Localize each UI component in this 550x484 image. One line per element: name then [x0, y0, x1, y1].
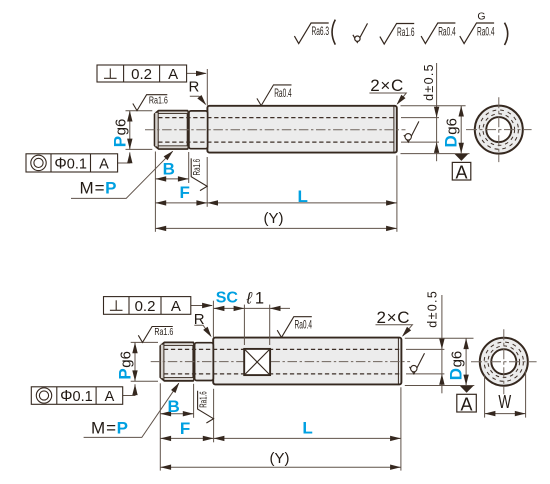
Pg6 dimension line (bottom)	[134, 342, 136, 381]
surface symbol Ra1.6 at thread (top)	[133, 95, 168, 111]
perpendicular symbol	[109, 69, 111, 79]
dimension line F and L (bottom)	[160, 437, 401, 439]
d dimension line (bottom)	[441, 295, 443, 393]
end view: crosshair center lines	[466, 129, 532, 131]
svg-text:(Y): (Y)	[264, 210, 284, 227]
ext line shoulder top	[206, 69, 208, 106]
svg-text:Ra0.4: Ra0.4	[295, 318, 313, 332]
surface symbol Ra1.6 at thread (bottom)	[138, 327, 173, 343]
svg-text:B: B	[163, 160, 175, 179]
shaft top/bottom ext lines	[401, 105, 466, 107]
dimension line B (bottom)	[160, 413, 193, 415]
dimension line F and L	[155, 202, 397, 204]
thread chamfer line (bottom)	[163, 343, 165, 381]
svg-text:F: F	[180, 419, 190, 438]
d ext lines (bottom)	[406, 348, 444, 350]
svg-text:Φ0.1: Φ0.1	[60, 388, 93, 405]
concentricity symbol (bottom)	[36, 388, 51, 403]
svg-text:Ra0.4: Ra0.4	[477, 25, 495, 39]
end view crosshair (bottom)	[471, 361, 537, 363]
leader M=P	[71, 151, 173, 198]
concentricity tolerance frame (bottom)	[31, 387, 122, 405]
legend symbol basic with circle	[353, 23, 368, 42]
end view hole circle (bottom)	[491, 349, 516, 374]
leader R (bottom)	[194, 325, 210, 336]
legend symbol Ra1.6	[380, 24, 414, 45]
datum A box (top)	[452, 162, 471, 180]
d dimension line	[436, 63, 438, 161]
perpendicular symbol (bottom)	[115, 300, 117, 310]
svg-text:Ra1.6: Ra1.6	[191, 159, 203, 176]
svg-text:A: A	[460, 394, 472, 414]
rotated surface symbol Ra1.6 at shoulder (bottom)	[197, 391, 213, 423]
datum A box (bottom)	[457, 394, 477, 412]
svg-text:Ra0.4: Ra0.4	[438, 25, 456, 39]
end view: hidden thread circles	[483, 114, 515, 146]
svg-text:L: L	[302, 419, 312, 438]
dimension line B	[155, 178, 188, 180]
svg-text:Ra1.6: Ra1.6	[149, 94, 168, 106]
svg-text:Φ0.1: Φ0.1	[54, 155, 87, 172]
svg-text:d±0.5: d±0.5	[426, 291, 440, 328]
svg-text:ℓ1: ℓ1	[246, 289, 265, 307]
thread minor diameter lines (bottom)	[164, 344, 193, 346]
svg-text:Dg6: Dg6	[442, 118, 461, 147]
legend symbol Ra6.3	[294, 23, 328, 44]
end view hidden circles (bottom)	[488, 346, 520, 378]
svg-text:(Y): (Y)	[270, 450, 290, 467]
svg-text:0.2: 0.2	[135, 298, 156, 315]
svg-text:A: A	[455, 162, 467, 182]
svg-text:A: A	[171, 298, 181, 315]
leader R	[190, 96, 206, 104]
center line (bottom)	[151, 361, 410, 363]
arrows (top drawing)	[127, 71, 464, 231]
Pg6 ext lines (bottom)	[131, 341, 158, 343]
d ext lines (hole)	[401, 117, 439, 119]
thread chamfer line	[157, 111, 159, 149]
svg-text:Ra1.6: Ra1.6	[197, 391, 209, 408]
thread shading strips (bottom)	[164, 343, 193, 345]
square ext lines	[243, 305, 245, 345]
end view: outer circle	[475, 106, 523, 154]
ext line shaft right (bottom)	[400, 387, 402, 470]
concentricity leader	[118, 152, 130, 163]
svg-text:W: W	[498, 392, 511, 412]
hidden hole dashed lines	[158, 117, 396, 119]
svg-text:F: F	[180, 183, 190, 202]
svg-text:B: B	[168, 397, 180, 416]
svg-text:A: A	[168, 66, 178, 83]
ext line shaft right (L,Y)	[396, 156, 398, 232]
ext line thread left (bottom)	[159, 383, 161, 470]
dimension line (Y) (bottom)	[160, 466, 401, 468]
big shaft right chamfer line (bottom)	[397, 338, 399, 384]
svg-text:2×C: 2×C	[370, 76, 403, 95]
svg-text:L: L	[298, 187, 308, 206]
svg-text:Dg6: Dg6	[446, 351, 465, 380]
svg-text:A: A	[105, 389, 115, 405]
svg-text:Pg6: Pg6	[111, 119, 130, 148]
arrows (bottom drawing)	[132, 303, 525, 470]
end view: hole circle	[486, 117, 511, 142]
svg-text:2×C: 2×C	[377, 308, 410, 327]
leader 2xC	[369, 93, 406, 104]
datum A triangle (bottom)	[460, 386, 474, 393]
W ext lines	[484, 375, 486, 418]
D dimension line (bottom)	[465, 338, 467, 385]
thread shading strips	[158, 112, 187, 114]
svg-text:Ra0.4: Ra0.4	[274, 86, 292, 100]
svg-text:M=P: M=P	[80, 179, 117, 198]
wrench flat square with cross	[244, 349, 270, 375]
legend symbol Ra0.4	[421, 23, 455, 44]
perpendicularity tolerance frame (top)	[97, 65, 187, 82]
svg-text:Pg6: Pg6	[116, 351, 135, 380]
extension and dimension lines (top drawing)	[118, 63, 470, 232]
shaft body fill underlay	[155, 111, 208, 149]
surface symbol Ra0.4 on shaft (bottom)	[277, 317, 312, 338]
ext line shoulder (bottom)	[213, 389, 215, 443]
svg-text:0.2: 0.2	[131, 66, 152, 83]
svg-text:M=P: M=P	[91, 418, 128, 437]
leader 2xC (bottom)	[376, 325, 413, 336]
legend symbol G Ra0.4	[460, 23, 494, 44]
D dimension line	[460, 106, 462, 154]
dimension line (Y)	[155, 227, 397, 229]
Pg6 ext lines	[126, 110, 153, 112]
svg-text:A: A	[99, 156, 109, 172]
perpendicularity leader	[187, 72, 206, 74]
concentricity leader (bottom)	[123, 384, 135, 395]
thread section outline	[155, 111, 188, 149]
svg-text:d±0.5: d±0.5	[422, 64, 436, 101]
Pg6 dimension line	[129, 111, 131, 150]
surface symbol with circle in hole (bottom)	[410, 353, 425, 374]
svg-text:Ra6.3: Ra6.3	[312, 24, 330, 38]
ext line shoulder (F/L)	[206, 157, 208, 207]
concentricity tolerance frame (top)	[26, 154, 118, 172]
svg-text:R: R	[194, 311, 205, 328]
perpendicularity tolerance frame (bottom)	[104, 297, 191, 315]
big shaft right chamfer line	[393, 106, 395, 152]
hidden hole dashed lines (bottom)	[164, 348, 401, 350]
extension and dimension lines (bottom drawing)	[123, 295, 526, 471]
thread section outline (bottom)	[160, 342, 193, 380]
small cylinder section	[189, 111, 208, 149]
big shaft body	[207, 106, 396, 153]
small cylinder section (bottom)	[195, 343, 214, 381]
ext line shoulder top (bottom)	[212, 301, 214, 338]
shaft top/bottom ext lines (bottom)	[405, 337, 474, 339]
end view outer circle (bottom)	[480, 338, 528, 386]
ext line thread right (B)	[188, 152, 190, 183]
perpendicularity leader (bottom)	[191, 305, 212, 307]
thread minor diameter lines	[158, 113, 187, 115]
surface symbol with circle in hole (top)	[404, 121, 419, 142]
surface symbol Ra0.4 on shaft (top)	[257, 85, 292, 106]
SC l1 dimension line	[213, 307, 290, 309]
svg-text:R: R	[189, 79, 200, 96]
ext line thread right (bottom)	[193, 384, 195, 418]
rotated surface symbol Ra1.6 at shoulder (top)	[191, 158, 207, 190]
legend parentheses	[332, 20, 335, 45]
svg-text:Ra1.6: Ra1.6	[154, 326, 173, 338]
big shaft body (bottom)	[213, 338, 401, 385]
svg-text:G: G	[477, 10, 485, 22]
leader M=P (bottom)	[84, 383, 179, 437]
W dimension line	[485, 413, 526, 415]
datum A triangle (top)	[455, 154, 469, 161]
ext line thread left (B,F,Y)	[154, 152, 156, 232]
shaft body fill underlay (bottom)	[160, 343, 213, 381]
svg-text:SC: SC	[216, 290, 239, 307]
concentricity symbol	[31, 155, 46, 170]
center line	[145, 129, 406, 131]
svg-text:Ra1.6: Ra1.6	[397, 25, 415, 39]
